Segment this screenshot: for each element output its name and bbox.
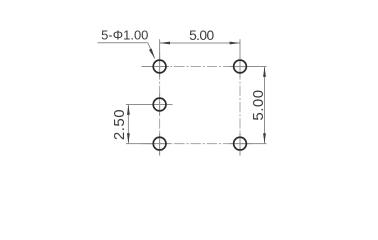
leader diagonal line: [148, 43, 155, 59]
crosshair hole BL: [149, 133, 170, 156]
svg-text:5.00: 5.00: [250, 89, 267, 120]
arrow right dim down: [263, 133, 266, 143]
arrow top dim left: [160, 42, 170, 45]
crosshair hole ML: [149, 94, 173, 115]
center line vertical left (through TL, ML, BL holes): [159, 53, 161, 155]
dimension line left 2.50: [127, 105, 129, 144]
dimension line top 5.00: [160, 42, 240, 44]
center line horizontal through bottom holes: [142, 143, 253, 145]
hole TL circle: [153, 60, 166, 73]
hole BR circle: [234, 137, 247, 150]
extension line left dim bottom: [126, 143, 152, 145]
center line horizontal through top holes: [142, 66, 253, 68]
center line vertical right (through TR, BR holes): [239, 53, 241, 155]
crosshair hole TR: [229, 56, 250, 77]
arrow left dim up: [127, 105, 130, 115]
svg-text:2.50: 2.50: [111, 109, 128, 140]
extension line right dim top: [247, 66, 267, 68]
arrow top dim right: [230, 42, 240, 45]
crosshair hole BR: [229, 133, 250, 156]
dimension line right 5.00: [264, 67, 266, 144]
hole BL circle: [153, 137, 166, 150]
hole ML circle: [153, 98, 166, 111]
leader shoulder underline: [98, 42, 148, 44]
extension line top dim left: [159, 39, 161, 59]
extension line top dim right: [239, 39, 241, 59]
svg-text:5.00: 5.00: [189, 28, 214, 43]
crosshair hole TL: [142, 56, 170, 77]
svg-text:5-Φ1.00: 5-Φ1.00: [101, 28, 148, 43]
arrow left dim down: [127, 133, 130, 143]
leader arrowhead at hole TL: [149, 49, 155, 59]
extension line right dim bottom: [247, 143, 267, 145]
extension line left dim top: [126, 104, 152, 106]
arrow right dim up: [263, 67, 266, 77]
hole TR circle: [234, 60, 247, 73]
